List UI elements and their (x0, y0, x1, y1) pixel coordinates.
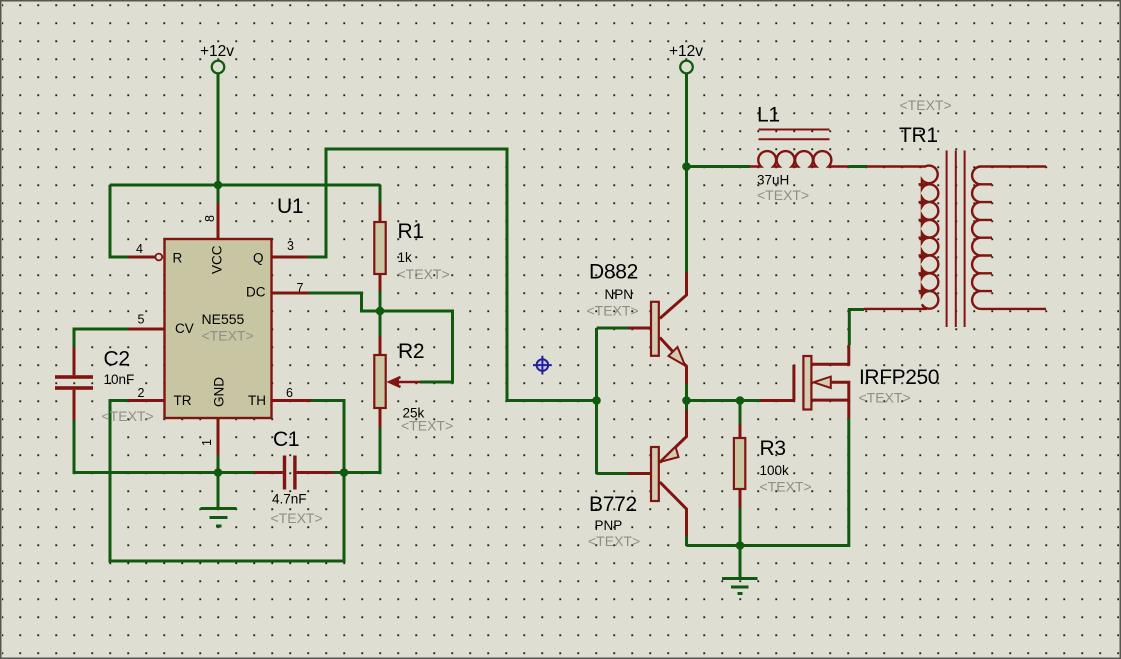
MOSFET IRFP250 (794, 345, 849, 418)
label NPN (605, 287, 634, 302)
pin 6 stub TH (272, 399, 311, 402)
ground symbol (right) (722, 546, 758, 594)
pin number 6 (286, 386, 293, 400)
pin 2 stub TR (128, 399, 164, 402)
wire B772 base (597, 472, 651, 475)
IRFP250 TEXT placeholder (859, 390, 911, 406)
transistor B772 (PNP) (651, 384, 687, 546)
wire emitter node to gate node (687, 399, 741, 402)
value 10nF (104, 372, 135, 387)
svg-text:<TEXT>: <TEXT> (859, 390, 911, 406)
svg-text:6: 6 (286, 386, 293, 400)
label TR1 (899, 124, 938, 147)
resistor R1 (374, 185, 385, 311)
D882 TEXT placeholder (587, 303, 639, 319)
svg-text:37uH: 37uH (757, 173, 789, 188)
svg-text:D882: D882 (589, 261, 638, 284)
svg-text:<TEXT>: <TEXT> (401, 418, 453, 434)
label C1 (273, 428, 299, 451)
svg-text:R2: R2 (398, 340, 424, 363)
pin name TR (174, 393, 192, 408)
value 1k (398, 250, 413, 265)
svg-text:<TEXT>: <TEXT> (760, 479, 812, 495)
wire VCC horizontal rail y=185 (110, 184, 380, 187)
junction GND node (214, 468, 223, 477)
svg-text:NE555: NE555 (202, 311, 245, 327)
wire D882 base (597, 327, 651, 330)
label R2 (398, 340, 424, 363)
inductor L1 (750, 130, 848, 167)
label R1 (398, 220, 424, 243)
label PNP (595, 518, 623, 533)
svg-text:3: 3 (287, 239, 294, 253)
svg-text:GND: GND (212, 377, 227, 407)
label D882 (589, 261, 638, 284)
svg-text:8: 8 (203, 215, 217, 222)
label U1 (277, 195, 303, 218)
TR1 TEXT placeholder (900, 97, 952, 113)
svg-text:B772: B772 (589, 493, 637, 516)
svg-text:4.7nF: 4.7nF (272, 492, 307, 507)
wire reset loop (left) down to pin 4 (110, 185, 128, 257)
svg-text:<TEXT>: <TEXT> (398, 266, 450, 282)
svg-text:<TEXT>: <TEXT> (900, 97, 952, 113)
label R3 (760, 437, 786, 460)
cursor marker (533, 356, 552, 375)
L1 TEXT placeholder (757, 187, 809, 203)
value 100k (760, 463, 790, 478)
pin number 1 rotated (200, 439, 214, 446)
C2 TEXT placeholder (102, 408, 154, 424)
junction base node (592, 396, 601, 405)
pin number 4 (136, 242, 143, 256)
svg-text:Q: Q (253, 251, 264, 266)
pin number 5 (138, 313, 145, 327)
svg-text:DC: DC (246, 285, 266, 300)
pin name TH (248, 393, 266, 408)
wire base node vertical (595, 328, 598, 474)
pin 5 stub CV (128, 328, 164, 331)
value 25k (403, 406, 425, 421)
svg-text:NPN: NPN (605, 287, 634, 302)
label NE555 (202, 311, 245, 327)
svg-text:L1: L1 (757, 104, 780, 127)
IC U1 NE555 body (165, 239, 272, 418)
svg-text:4: 4 (136, 242, 143, 256)
svg-text:<TEXT>: <TEXT> (588, 533, 640, 549)
junction VCC rail (214, 181, 223, 190)
svg-text:100k: 100k (760, 463, 790, 478)
svg-text:<TEXT>: <TEXT> (757, 187, 809, 203)
wire TR1 primary bottom to MOSFET drain (849, 310, 864, 346)
junction gate node (736, 396, 745, 405)
svg-text:1: 1 (200, 439, 214, 446)
pin 3 stub Q (272, 256, 308, 259)
pin name VCC rotated (210, 245, 225, 274)
svg-text:10nF: 10nF (104, 372, 135, 387)
value 37uH (757, 173, 789, 188)
wire to L1 (687, 165, 751, 168)
capacitor C2 (55, 348, 93, 420)
wire Q output to bases (308, 149, 597, 401)
R2 TEXT placeholder (401, 418, 453, 434)
pin name DC (246, 285, 266, 300)
junction C1 right node (340, 468, 349, 477)
pin 1 stub GND (217, 419, 220, 473)
junction bottom rail (736, 541, 745, 550)
pin 7 stub DC (272, 292, 309, 295)
resistor R2 (preset) (344, 311, 386, 473)
R2 wiper arrow (380, 311, 453, 387)
wire +12v right vertical (685, 73, 688, 167)
svg-text:IRFP250: IRFP250 (859, 366, 939, 389)
svg-text:C1: C1 (273, 428, 299, 451)
pin name GND rotated (212, 377, 227, 407)
junction +12v/L1 (682, 162, 691, 171)
svg-text:<TEXT>: <TEXT> (202, 328, 254, 344)
junction R1/R2/DC (376, 307, 385, 316)
wire +12v down to D882 collector (685, 167, 688, 273)
wire L1 to TR1 (848, 165, 867, 168)
label IRFP250 (859, 366, 939, 389)
wire bottom rail (687, 418, 849, 546)
pin name R (173, 251, 183, 266)
wire C2 bottom to ground rail (74, 420, 218, 473)
svg-text:+12v: +12v (200, 43, 234, 60)
capacitor C1 (218, 456, 344, 490)
svg-text:R: R (173, 251, 183, 266)
wire TR bottom loop (110, 401, 344, 562)
svg-text:<TEXT>: <TEXT> (102, 408, 154, 424)
R3 TEXT placeholder (760, 479, 812, 495)
svg-text:<TEXT>: <TEXT> (271, 510, 323, 526)
value 4.7nF (272, 492, 307, 507)
pin number 3 (287, 239, 294, 253)
svg-text:5: 5 (138, 313, 145, 327)
wire gate node to MOSFET gate (740, 399, 794, 402)
svg-text:<TEXT>: <TEXT> (587, 303, 639, 319)
svg-text:PNP: PNP (595, 518, 623, 533)
svg-text:1k: 1k (398, 250, 413, 265)
svg-text:TR1: TR1 (899, 124, 938, 147)
pin name CV (175, 321, 194, 336)
label B772 (589, 493, 637, 516)
power terminal +12v (left) (212, 61, 225, 74)
ground symbol (left) (201, 473, 237, 527)
pin name Q (253, 251, 264, 266)
wire DC to R1/R2 junction (309, 293, 381, 311)
B772 TEXT placeholder (588, 533, 640, 549)
wire CV to C2 (74, 329, 128, 348)
transformer TR1 primary winding (864, 166, 938, 309)
transformer TR1 secondary winding (972, 167, 1046, 309)
svg-text:R3: R3 (760, 437, 786, 460)
svg-text:CV: CV (175, 321, 194, 336)
svg-text:2: 2 (138, 386, 145, 400)
label U1 TEXT placeholder (202, 328, 254, 344)
label +12v (left) (200, 43, 234, 60)
label +12v (right) (669, 43, 703, 60)
pin 4 stub with inversion bubble (128, 254, 162, 261)
wire TH down to C1 junction (311, 401, 344, 473)
pin number 7 (297, 281, 304, 295)
R1 TEXT placeholder (398, 266, 450, 282)
C1 TEXT placeholder (271, 510, 323, 526)
resistor R3 (734, 401, 745, 546)
wire +12v left vertical to VCC rail (217, 73, 220, 185)
transformer TR1 core (946, 151, 966, 328)
pin number 2 (138, 386, 145, 400)
label C2 (104, 348, 130, 371)
svg-text:TR: TR (174, 393, 192, 408)
pin number 8 rotated (203, 215, 217, 222)
svg-text:TH: TH (248, 393, 266, 408)
junction emitter node (682, 396, 691, 405)
pin 8 stub VCC (217, 185, 220, 239)
svg-text:+12v: +12v (669, 43, 703, 60)
svg-text:U1: U1 (277, 195, 303, 218)
svg-text:VCC: VCC (210, 245, 225, 274)
power terminal +12v (right) (680, 61, 693, 74)
svg-text:C2: C2 (104, 348, 130, 371)
transistor D882 (NPN) (651, 272, 687, 384)
label L1 (757, 104, 780, 127)
svg-text:R1: R1 (398, 220, 424, 243)
